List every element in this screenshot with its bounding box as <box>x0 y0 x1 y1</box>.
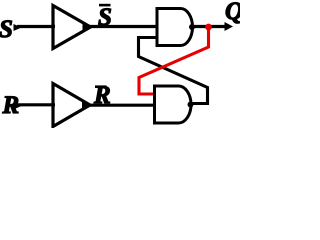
inverter U2 (bottom) <box>53 84 90 127</box>
overbar of S-bar <box>99 4 111 7</box>
inverter U2 tip fill <box>82 102 91 109</box>
NAND gate G2 (bottom) <box>155 86 192 123</box>
input arrow S <box>14 24 22 31</box>
G2 output junction blob <box>188 102 194 108</box>
red feedback wire Q node to G2 upper input <box>139 27 209 94</box>
wire inverter to gate G1 upper input <box>89 25 158 28</box>
output arrow to Q <box>225 22 234 31</box>
G1 output junction blob <box>189 24 195 30</box>
inverter U1 tip fill <box>83 24 92 31</box>
wire inverter to gate G2 lower input <box>89 104 157 107</box>
wire R to inverter <box>18 103 55 106</box>
black feedback wire G2 output to G1 lower input <box>139 38 208 104</box>
input arrow R <box>15 102 23 109</box>
svg-text:S: S <box>0 16 13 43</box>
wire G1 output to Q <box>192 25 226 28</box>
inverter U1 (top) <box>53 6 91 49</box>
red junction dot at Q node <box>205 24 212 31</box>
overbar of R-bar <box>95 85 107 88</box>
svg-text:Q: Q <box>225 0 240 25</box>
NAND gate G1 (top) <box>157 9 193 46</box>
wire S to inverter <box>17 25 55 28</box>
